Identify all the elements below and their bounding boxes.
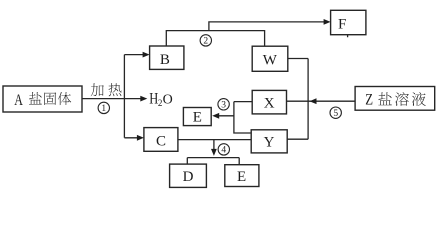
svg-text:B: B <box>160 52 170 68</box>
svg-text:3: 3 <box>221 101 226 111</box>
svg-text:Z: Z <box>365 91 373 109</box>
svg-text:Y: Y <box>264 134 275 150</box>
svg-text:F: F <box>338 16 346 32</box>
svg-text:W: W <box>263 53 278 69</box>
svg-text:2: 2 <box>203 37 208 47</box>
svg-text:D: D <box>183 169 194 185</box>
svg-text:5: 5 <box>333 109 338 119</box>
svg-text:C: C <box>156 133 166 149</box>
svg-text:E: E <box>237 169 246 185</box>
svg-text:A: A <box>14 92 23 110</box>
svg-text:O: O <box>163 93 173 108</box>
svg-text:X: X <box>264 95 275 111</box>
svg-text:E: E <box>193 110 202 126</box>
svg-text:H: H <box>149 90 158 108</box>
svg-text:1: 1 <box>101 104 106 114</box>
svg-text:4: 4 <box>221 146 226 156</box>
